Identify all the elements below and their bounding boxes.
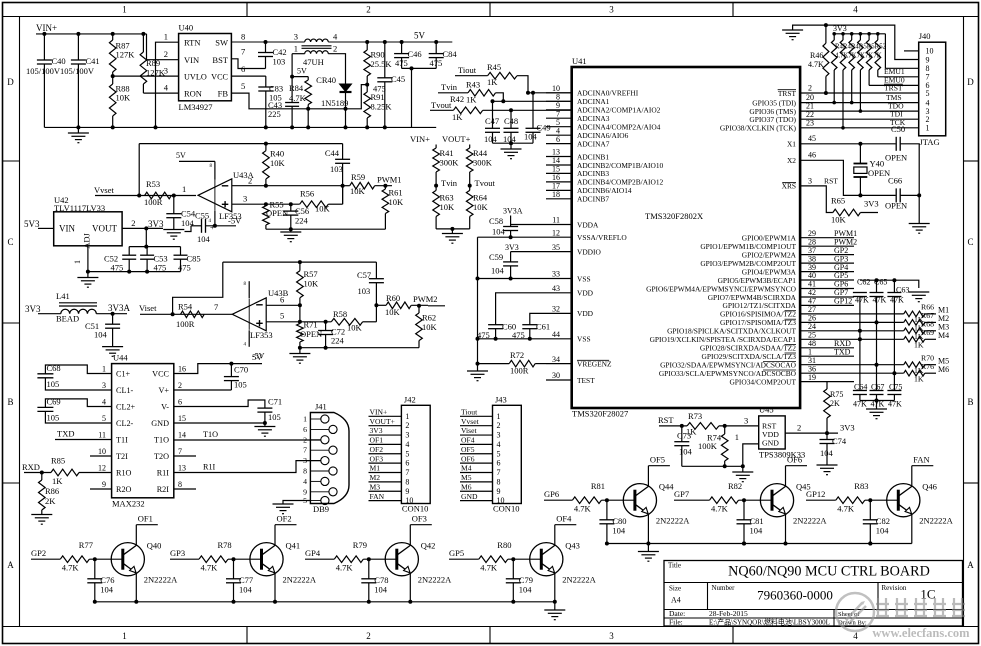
svg-text:R58: R58 <box>333 309 347 319</box>
svg-text:VDD: VDD <box>577 289 594 298</box>
svg-text:GPIO38/XCLKIN (TCK): GPIO38/XCLKIN (TCK) <box>720 124 797 133</box>
svg-text:OF3: OF3 <box>370 454 384 463</box>
node junction R57 top <box>298 260 302 264</box>
svg-text:224: 224 <box>331 336 345 346</box>
svg-text:C49: C49 <box>537 123 551 133</box>
wire divider gnd rail <box>436 228 470 230</box>
svg-text:R80: R80 <box>497 540 511 550</box>
ground symbol U43B rail <box>299 348 301 354</box>
svg-text:C55: C55 <box>195 211 209 221</box>
wire VIN+ rail <box>36 33 147 35</box>
capacitor C82 <box>869 500 871 520</box>
wire C44-R56 junction riser <box>342 186 344 205</box>
svg-text:5V3: 5V3 <box>24 219 40 229</box>
node junction R82-C81 <box>742 498 746 502</box>
svg-text:NQ60/NQ90 MCU CTRL BOARD: NQ60/NQ90 MCU CTRL BOARD <box>728 564 930 580</box>
svg-text:ADCINB7: ADCINB7 <box>577 195 609 204</box>
wire RXD to R1O <box>24 472 51 474</box>
wire GP2 input <box>31 558 60 560</box>
svg-text:OF3: OF3 <box>412 513 427 523</box>
node junction col2 row31 <box>875 363 879 367</box>
svg-text:3V3: 3V3 <box>148 219 164 229</box>
capacitor C73 <box>681 426 683 442</box>
node junction R77-C76 <box>93 557 97 561</box>
svg-text:104: 104 <box>484 134 498 144</box>
ground symbol C71 <box>264 423 266 427</box>
svg-text:R2O: R2O <box>116 485 132 494</box>
svg-text:R64: R64 <box>473 193 488 203</box>
capacitor C41 <box>77 34 79 60</box>
watermark logo <box>836 593 874 631</box>
svg-text:1: 1 <box>303 415 307 424</box>
svg-text:1K: 1K <box>466 95 477 105</box>
svg-text:35: 35 <box>552 243 560 252</box>
wire top rail U43A <box>139 143 342 145</box>
svg-text:File:: File: <box>669 618 683 627</box>
svg-text:GP12: GP12 <box>806 489 825 499</box>
svg-text:FB: FB <box>218 89 229 99</box>
wire collector to OF3 <box>409 525 411 546</box>
resistor R66 net M1 <box>854 313 904 315</box>
resistor R56 <box>300 201 329 208</box>
svg-text:44: 44 <box>552 330 560 339</box>
resistor R87 <box>112 34 114 40</box>
svg-text:2N2222A: 2N2222A <box>283 575 317 585</box>
svg-text:4.7K: 4.7K <box>336 563 354 573</box>
svg-text:VSSA/VREFLO: VSSA/VREFLO <box>577 233 627 242</box>
svg-text:JTAG: JTAG <box>920 137 940 147</box>
wire top rail to J40 pin9 <box>826 25 919 59</box>
svg-text:A: A <box>7 560 14 570</box>
wire J43 pin9 M6 <box>460 490 493 492</box>
node junction R90 top <box>365 40 369 44</box>
svg-text:OF4: OF4 <box>461 436 475 445</box>
wire GP4 input <box>305 558 334 560</box>
wire R73 to U45 pin3 <box>719 425 759 427</box>
svg-text:3: 3 <box>405 431 409 440</box>
svg-text:OPEN: OPEN <box>868 168 890 178</box>
wire Viset input <box>140 313 232 315</box>
svg-text:2N2222A: 2N2222A <box>919 516 953 526</box>
resistor R61 <box>382 189 389 214</box>
svg-text:11: 11 <box>552 216 560 225</box>
svg-text:T1I: T1I <box>116 436 128 445</box>
svg-text:R40: R40 <box>270 149 284 159</box>
resistor R58 <box>331 319 362 326</box>
svg-text:BST: BST <box>212 55 228 65</box>
svg-text:C1+: C1+ <box>116 370 131 379</box>
inductor L41 BEAD <box>61 309 97 313</box>
capacitor C60 <box>488 324 503 326</box>
svg-text:6: 6 <box>556 135 560 144</box>
svg-text:475: 475 <box>373 84 386 94</box>
svg-text:10K: 10K <box>473 202 489 212</box>
resistor R85 <box>51 469 79 476</box>
wire collector to OF6 <box>785 466 787 487</box>
svg-text:SW: SW <box>215 38 228 48</box>
svg-text:2: 2 <box>366 631 371 641</box>
node junction C52 bottom <box>127 270 131 274</box>
node junction ADJ-gnd rail <box>86 270 90 274</box>
node junction Q44 emitter <box>646 542 650 546</box>
node junction C42 top <box>264 40 268 44</box>
svg-text:R45: R45 <box>487 62 501 72</box>
svg-text:VSS: VSS <box>577 274 591 283</box>
pin GPIO35 TDI <box>800 102 919 104</box>
wire FB pin5 <box>231 85 367 109</box>
svg-text:PWM2: PWM2 <box>413 294 438 304</box>
svg-text:R86: R86 <box>45 486 59 496</box>
node junction bottom rail gnd <box>875 399 879 403</box>
resistor R86 <box>41 473 43 481</box>
wire R57-R71 link <box>299 305 301 322</box>
wire J43 pin6 OF6 <box>460 462 493 464</box>
svg-text:MAX232: MAX232 <box>112 499 145 509</box>
resistor R71 OPEN <box>297 324 304 343</box>
svg-text:10: 10 <box>405 496 413 505</box>
resistor R89 <box>142 34 144 52</box>
svg-text:T2I: T2I <box>116 452 128 461</box>
svg-text:5V: 5V <box>252 352 263 362</box>
resistor R77 <box>60 556 89 563</box>
svg-text:ADCINA7: ADCINA7 <box>577 139 610 148</box>
U41 right GPIO pin stubs and names <box>800 237 854 239</box>
svg-text:1: 1 <box>497 412 501 421</box>
wire GP3 input <box>170 558 199 560</box>
wire C62 column down <box>859 297 861 391</box>
svg-text:23: 23 <box>806 119 814 128</box>
svg-text:DB9: DB9 <box>313 504 329 514</box>
svg-text:FAN: FAN <box>913 454 929 464</box>
svg-text:8.25K: 8.25K <box>371 102 393 112</box>
svg-text:100R: 100R <box>144 197 163 207</box>
node junction C43 bottom <box>290 125 294 129</box>
svg-text:R54: R54 <box>178 302 193 312</box>
row ticks <box>3 160 20 162</box>
svg-text:J42: J42 <box>404 395 416 405</box>
resistor R69 net M4 <box>854 338 904 340</box>
svg-text:10K: 10K <box>385 307 401 317</box>
svg-text:2: 2 <box>248 176 252 186</box>
wire VDDA pin11 <box>511 224 546 226</box>
svg-text:1: 1 <box>122 5 127 15</box>
svg-text:TRST: TRST <box>884 83 903 92</box>
svg-text:FAN: FAN <box>370 492 385 501</box>
resistor R43 <box>468 90 496 97</box>
wire cap bottom rail <box>88 271 181 273</box>
svg-text:E:\产品\SYNQOR\燃料电池\LBSY3000L: E:\产品\SYNQOR\燃料电池\LBSY3000L <box>709 618 830 627</box>
svg-text:U45: U45 <box>759 405 774 415</box>
capacitor C64 <box>853 390 867 392</box>
wire R45 out drop <box>517 76 528 93</box>
node junction R71 top <box>298 320 302 324</box>
ground symbol C74 <box>817 464 838 466</box>
transceiver U44 MAX232 box <box>112 364 174 498</box>
resistor R62 <box>418 306 420 313</box>
resistor R70 net M5 <box>854 364 904 366</box>
capacitor C55 <box>191 225 202 227</box>
svg-text:VCC: VCC <box>211 73 228 82</box>
svg-text:7: 7 <box>241 47 245 57</box>
wire L40 pin2 to diode <box>328 54 345 84</box>
resistor R72 VREGENZ <box>478 363 510 365</box>
svg-text:X2: X2 <box>787 156 796 165</box>
svg-text:VSS: VSS <box>577 335 591 344</box>
svg-text:104: 104 <box>820 448 834 458</box>
svg-text:10K: 10K <box>270 158 286 168</box>
svg-text:10K: 10K <box>831 215 847 225</box>
resistor R63 <box>433 190 440 216</box>
capacitor C76 <box>94 559 96 579</box>
wire GPIO34 to R75 <box>827 382 854 389</box>
svg-text:C69: C69 <box>47 397 61 407</box>
connector J40 JTAG <box>919 42 946 136</box>
svg-text:C80: C80 <box>612 516 626 526</box>
node junction Q45 emitter <box>784 542 788 546</box>
svg-text:104: 104 <box>239 585 253 595</box>
node junction Vvset feedback <box>137 194 141 198</box>
svg-text:12: 12 <box>552 228 560 237</box>
wire TXD to T1I <box>55 439 112 441</box>
svg-text:www.elecfans.com: www.elecfans.com <box>872 626 970 640</box>
node junction C59-VSS <box>509 277 513 281</box>
svg-text:C50: C50 <box>891 124 905 134</box>
capacitor C63 <box>893 280 895 292</box>
transistor Q45 2N2222A <box>760 484 793 517</box>
svg-text:10K: 10K <box>440 202 456 212</box>
pin X2 <box>800 160 896 195</box>
svg-text:1: 1 <box>164 32 168 42</box>
wire J40 pin10 stub <box>904 50 919 52</box>
node junction C40 top <box>42 32 46 36</box>
svg-text:VIN+: VIN+ <box>410 134 430 144</box>
node junction R88 bottom <box>111 125 115 129</box>
svg-text:R1I: R1I <box>203 463 216 472</box>
node junction R79-C78 <box>367 557 371 561</box>
node junction C80 gnd <box>605 542 609 546</box>
svg-text:B: B <box>967 397 973 407</box>
svg-text:10K: 10K <box>116 93 132 103</box>
svg-text:2: 2 <box>797 423 801 433</box>
capacitor C47 <box>492 101 494 128</box>
MCU U41 TMS320F2802X box <box>572 67 800 408</box>
svg-text:CR40: CR40 <box>316 75 336 85</box>
capacitor C50 OPEN <box>895 137 897 151</box>
wire J43 pin10 GND <box>460 500 493 502</box>
capacitor C48 <box>510 110 512 128</box>
wire 5V rail after L40 <box>328 41 452 43</box>
svg-text:TXD: TXD <box>834 347 851 356</box>
svg-text:R72: R72 <box>510 350 524 360</box>
svg-text:104: 104 <box>374 585 388 595</box>
svg-text:225: 225 <box>268 109 281 119</box>
svg-text:C78: C78 <box>374 575 388 585</box>
svg-text:7: 7 <box>405 468 409 477</box>
resistor R78 <box>199 556 228 563</box>
wire top rail U43B <box>223 261 377 263</box>
svg-text:8: 8 <box>241 32 245 42</box>
svg-text:TEST: TEST <box>577 376 595 385</box>
capacitor C77 <box>233 559 235 579</box>
svg-text:R78: R78 <box>218 540 232 550</box>
svg-text:18: 18 <box>552 190 560 199</box>
svg-text:Vvset: Vvset <box>461 417 480 426</box>
wire J42 pin1 VIN+ <box>369 415 402 417</box>
wire UVLO pin3 <box>113 75 179 77</box>
svg-text:224: 224 <box>295 216 309 226</box>
svg-text:TXD: TXD <box>57 429 74 439</box>
capacitor C81 <box>743 500 745 520</box>
wire VIN pin2 drop <box>147 34 179 60</box>
svg-text:3: 3 <box>497 431 501 440</box>
wire gnd rail Q44-Q46 <box>607 543 912 545</box>
svg-text:C77: C77 <box>239 575 253 585</box>
node junction R43-pin8 <box>501 99 505 103</box>
svg-text:VOUT+: VOUT+ <box>442 134 471 144</box>
node junction C56 top <box>289 202 293 206</box>
wire J43 pin1 Tiout <box>460 415 493 417</box>
wire V- pin6 to C71 <box>174 400 265 408</box>
svg-text:R75: R75 <box>830 390 843 399</box>
svg-text:1: 1 <box>102 365 106 374</box>
svg-text:5V: 5V <box>414 31 426 41</box>
svg-text:R1O: R1O <box>116 469 132 478</box>
wire U45 gnd rail <box>682 465 743 467</box>
node junction Tvin tap <box>434 184 438 188</box>
wire collector to OF1 <box>135 525 137 546</box>
svg-text:GND: GND <box>461 492 478 501</box>
pin GPIO38 TCK <box>800 127 919 129</box>
transistor Q44 2N2222A <box>623 484 656 517</box>
svg-text:T1O: T1O <box>154 436 169 445</box>
svg-text:47K: 47K <box>855 296 869 305</box>
svg-text:8: 8 <box>405 477 409 486</box>
svg-text:475: 475 <box>111 263 124 273</box>
wire gnd rail Q40-Q43 <box>95 601 555 603</box>
svg-text:Tvin: Tvin <box>441 82 458 92</box>
svg-text:C81: C81 <box>750 516 764 526</box>
wire ADCINA1 line <box>493 100 572 102</box>
svg-text:105: 105 <box>47 379 60 389</box>
resistor R68 net M3 <box>854 330 904 332</box>
svg-text:3V3A: 3V3A <box>108 303 130 313</box>
svg-text:104: 104 <box>876 526 890 536</box>
node junction R40 bottom <box>264 184 268 188</box>
wire J43 pin7 M4 <box>460 472 493 474</box>
svg-text:30: 30 <box>552 371 560 380</box>
node junction C49 top <box>531 91 535 95</box>
svg-text:100R: 100R <box>176 319 195 329</box>
wire VSSA pin12 <box>478 236 547 238</box>
svg-text:3: 3 <box>744 416 748 426</box>
wire U45 GND pin1 <box>743 444 759 466</box>
svg-text:R73: R73 <box>688 411 702 421</box>
wire J42 pin7 M1 <box>369 472 402 474</box>
svg-text:3: 3 <box>303 456 307 465</box>
svg-text:TMS320F2802X: TMS320F2802X <box>645 211 703 221</box>
svg-text:RON: RON <box>184 89 202 99</box>
ground symbol main rail <box>77 127 79 133</box>
wire GP7 input <box>674 499 710 501</box>
wire T1O to DB9 <box>174 439 321 441</box>
node junction R83-C82 <box>868 498 872 502</box>
svg-text:VOUT: VOUT <box>92 224 117 234</box>
svg-text:RTN: RTN <box>184 38 201 48</box>
svg-text:R69: R69 <box>921 328 934 337</box>
svg-text:14: 14 <box>178 431 186 440</box>
svg-text:M4: M4 <box>938 331 949 340</box>
svg-text:C79: C79 <box>519 575 533 585</box>
svg-text:100K: 100K <box>698 441 718 451</box>
svg-text:M6: M6 <box>461 482 472 491</box>
svg-text:R79: R79 <box>353 540 367 550</box>
node junction C46 top <box>400 40 404 44</box>
node junction Tvout tap <box>468 184 472 188</box>
node junction R86 top <box>40 471 44 475</box>
svg-text:VCC: VCC <box>152 370 169 379</box>
svg-text:R53: R53 <box>146 179 160 189</box>
svg-text:C48: C48 <box>504 116 518 126</box>
node junction R90-R91 <box>365 83 369 87</box>
svg-text:2N2222A: 2N2222A <box>562 575 596 585</box>
svg-text:BEAD: BEAD <box>56 314 79 324</box>
svg-text:C41: C41 <box>86 56 100 66</box>
svg-text:4.7K: 4.7K <box>62 563 80 573</box>
wire GP5 input <box>449 558 479 560</box>
svg-text:GP7: GP7 <box>674 489 689 499</box>
svg-text:C: C <box>967 237 973 247</box>
svg-text:M6: M6 <box>938 365 949 374</box>
svg-text:4.7K: 4.7K <box>711 504 729 514</box>
svg-text:1K: 1K <box>452 112 463 122</box>
node junction col1 row24 <box>858 329 862 333</box>
svg-text:4.7K: 4.7K <box>201 563 219 573</box>
ground symbol VSS trunk <box>477 364 479 371</box>
node junction C81 gnd <box>742 542 746 546</box>
wire L40 pin1 down <box>292 53 305 55</box>
svg-text:R46: R46 <box>810 51 823 60</box>
wire feedback riser U43B <box>173 262 223 314</box>
wire ADCINA0 line <box>528 92 572 94</box>
node junction R62 top <box>417 304 421 308</box>
svg-text:R59: R59 <box>351 172 365 182</box>
svg-text:300K: 300K <box>473 158 493 168</box>
wire L41 to 3V3A <box>96 313 127 315</box>
svg-text:C67: C67 <box>871 383 884 392</box>
wire U45 VDD pin2 to 3V3 <box>785 432 838 434</box>
wire VSS pin33 <box>478 278 547 280</box>
svg-text:V+: V+ <box>158 386 169 395</box>
wire C55 left to gnd <box>185 226 192 232</box>
capacitor C45 <box>384 42 386 78</box>
node junction R91 bottom <box>365 125 369 129</box>
wire U43B pin5 <box>266 321 331 323</box>
svg-text:4: 4 <box>303 477 307 486</box>
svg-text:T2O: T2O <box>154 452 169 461</box>
node junction X1-Y40 <box>858 142 862 146</box>
node junction C47 top <box>491 99 495 103</box>
wire collector to OF4 <box>554 525 556 546</box>
svg-text:Q46: Q46 <box>922 482 937 492</box>
capacitor C54 <box>173 196 175 214</box>
capacitor C85 <box>180 247 182 256</box>
svg-text:45: 45 <box>808 134 816 143</box>
wire filter gnd rail <box>493 142 534 144</box>
resistor R79 <box>334 556 363 563</box>
ground symbol JTAG pulldown <box>793 25 826 30</box>
svg-text:B: B <box>7 397 13 407</box>
wire U43A pin3 <box>232 203 300 205</box>
